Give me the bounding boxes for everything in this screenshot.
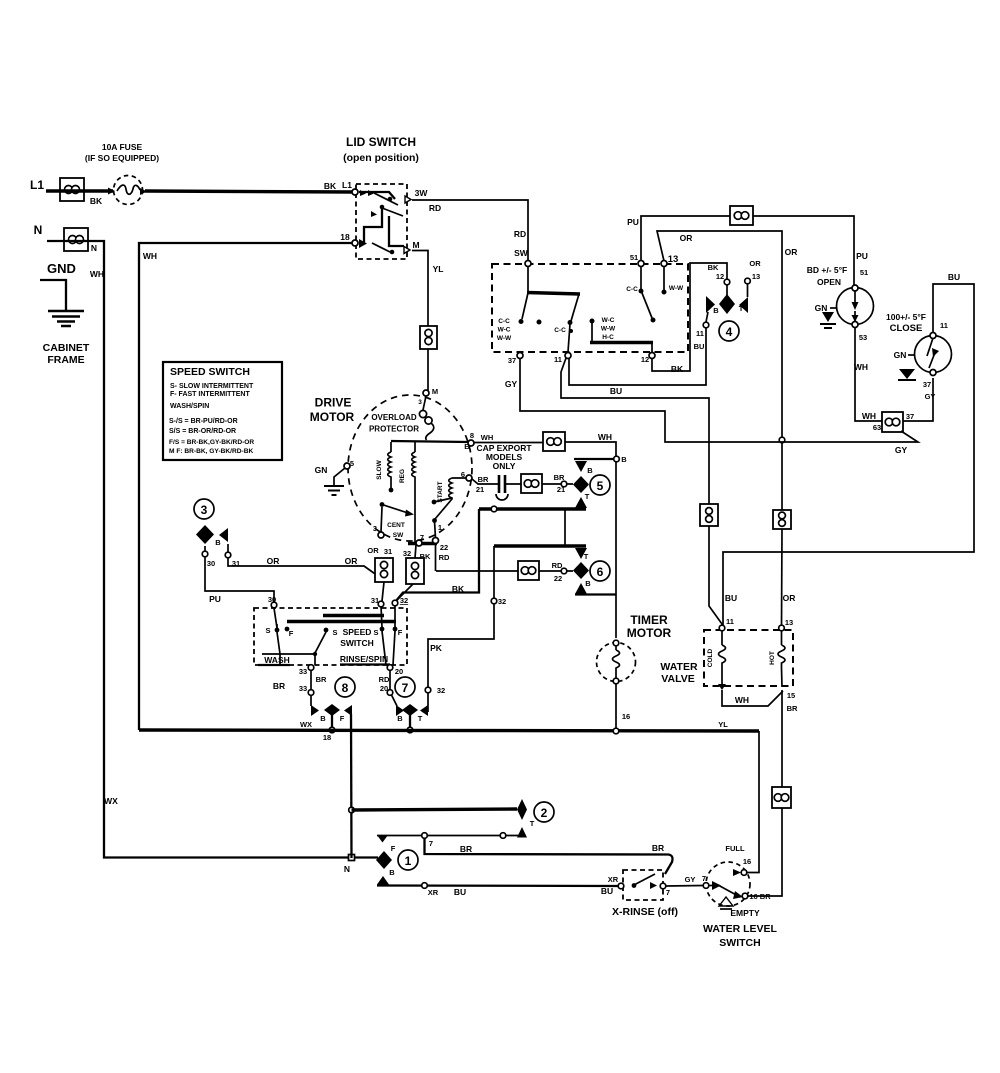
svg-text:YL: YL (433, 264, 444, 274)
connector BR 21 (521, 474, 542, 493)
svg-text:SLOW: SLOW (376, 459, 383, 479)
svg-text:OR: OR (267, 556, 280, 566)
svg-text:BU: BU (725, 593, 737, 603)
svg-text:H-C: H-C (602, 334, 614, 341)
svg-text:BU: BU (454, 887, 466, 897)
svg-text:6: 6 (597, 565, 604, 579)
svg-text:BR: BR (652, 843, 664, 853)
wire WH left rectangle (139, 232, 354, 730)
connector plug 2 (517, 799, 554, 838)
connector YL (420, 326, 437, 349)
motor terminal 5 ground (315, 459, 354, 495)
svg-text:OR: OR (783, 593, 796, 603)
svg-text:W-W: W-W (601, 326, 616, 333)
svg-text:1: 1 (405, 854, 412, 868)
wire OR to valve (781, 529, 784, 627)
wire BU to valve 11 (709, 526, 737, 628)
svg-text:51: 51 (860, 268, 868, 277)
svg-text:BR: BR (787, 704, 798, 713)
wire OR outer (657, 231, 797, 603)
svg-text:37: 37 (923, 380, 931, 389)
water level switch (703, 844, 777, 949)
fuse F1 10A (85, 142, 159, 205)
connector N (64, 228, 97, 253)
svg-text:RD: RD (439, 553, 450, 562)
svg-text:RD: RD (514, 229, 526, 239)
svg-text:SWITCH: SWITCH (719, 937, 760, 949)
svg-text:B: B (397, 714, 403, 723)
wire PU 30 (205, 557, 276, 604)
svg-text:SW: SW (514, 248, 529, 258)
svg-text:RD: RD (429, 203, 441, 213)
motor terminal 7 (408, 533, 437, 546)
svg-text:7: 7 (420, 533, 424, 542)
motor internal bus (391, 441, 468, 442)
svg-text:22: 22 (440, 543, 448, 552)
svg-text:L1: L1 (30, 178, 44, 192)
svg-text:B: B (215, 538, 221, 547)
svg-text:C-C: C-C (498, 318, 510, 325)
svg-text:7: 7 (402, 681, 409, 695)
wire T 2 line (352, 809, 518, 810)
svg-text:COLD: COLD (707, 648, 714, 667)
svg-text:S: S (373, 628, 378, 637)
speed switch (254, 600, 407, 676)
svg-text:32: 32 (498, 597, 506, 606)
svg-text:N: N (91, 243, 97, 253)
svg-text:22: 22 (554, 574, 562, 583)
wire BR 33 (273, 670, 327, 706)
svg-text:8: 8 (342, 681, 349, 695)
svg-text:18: 18 (340, 232, 350, 242)
wire B bar 5 (396, 506, 586, 601)
wire 32 PK (425, 546, 506, 712)
svg-text:5: 5 (350, 459, 354, 468)
svg-text:F: F (289, 629, 294, 638)
wire BR 16 (748, 808, 782, 896)
wire WH neutral (47, 241, 378, 874)
svg-text:EMPTY: EMPTY (730, 908, 760, 918)
svg-text:63: 63 (873, 423, 881, 432)
svg-text:(open position): (open position) (343, 152, 419, 164)
svg-text:T: T (584, 552, 589, 561)
svg-text:WH: WH (598, 432, 612, 442)
wire YL to motor (427, 349, 429, 391)
legend speed switch (163, 362, 282, 460)
svg-text:B: B (621, 455, 627, 464)
svg-text:F- FAST INTERMITTENT: F- FAST INTERMITTENT (170, 391, 250, 398)
svg-text:BR: BR (460, 844, 472, 854)
svg-text:S: S (265, 626, 270, 635)
svg-text:GY: GY (925, 392, 936, 401)
thermostat 100 close (886, 312, 952, 380)
svg-text:WH: WH (481, 433, 494, 442)
svg-text:20: 20 (395, 667, 403, 676)
svg-text:PU: PU (856, 251, 868, 261)
svg-text:31: 31 (384, 547, 392, 556)
svg-text:SPEED SWITCH: SPEED SWITCH (170, 366, 250, 378)
svg-text:13: 13 (752, 272, 760, 281)
svg-text:T: T (585, 492, 590, 501)
motor terminal 3 (373, 524, 384, 538)
svg-text:MOTOR: MOTOR (627, 626, 672, 640)
svg-text:37: 37 (906, 412, 914, 421)
wire RD 22 (436, 561, 573, 583)
winding start (432, 478, 466, 519)
wire WH 53 (854, 327, 882, 432)
svg-text:BK: BK (708, 263, 719, 272)
svg-text:3: 3 (201, 503, 208, 517)
svg-text:DRIVE: DRIVE (315, 396, 352, 410)
svg-text:BR: BR (478, 475, 489, 484)
drive motor (310, 395, 472, 541)
svg-text:13: 13 (668, 254, 679, 265)
svg-text:S- SLOW INTERMITTENT: S- SLOW INTERMITTENT (170, 383, 254, 390)
connector plug 6 (494, 546, 616, 595)
svg-text:W-C: W-C (498, 327, 511, 334)
svg-text:3: 3 (418, 399, 422, 406)
svg-text:GND: GND (47, 261, 76, 276)
svg-text:13: 13 (785, 618, 793, 627)
winding reg (399, 442, 415, 542)
svg-text:N: N (344, 864, 350, 874)
svg-text:32: 32 (403, 549, 411, 558)
svg-text:53: 53 (859, 333, 867, 342)
svg-text:15: 15 (787, 691, 795, 700)
svg-text:11: 11 (726, 617, 734, 626)
svg-text:GN: GN (815, 303, 828, 313)
wire 18 drop (349, 714, 355, 858)
wire WH cap export run (474, 432, 627, 638)
wire GY long (505, 358, 918, 455)
connector OR 8 (375, 558, 393, 582)
connector plug 4 (706, 259, 761, 341)
svg-text:F: F (398, 628, 403, 637)
svg-text:B: B (587, 466, 593, 475)
svg-text:MOTOR: MOTOR (310, 410, 355, 424)
svg-text:(IF SO EQUIPPED): (IF SO EQUIPPED) (85, 153, 159, 163)
svg-text:6: 6 (461, 470, 465, 479)
wire YL (412, 251, 443, 327)
wire 16 full (747, 731, 759, 873)
svg-text:CENT: CENT (387, 522, 405, 529)
wire GY xrinse (666, 874, 706, 886)
svg-text:YL: YL (718, 720, 728, 729)
svg-text:OR: OR (749, 259, 761, 268)
svg-text:WATER: WATER (660, 661, 698, 673)
svg-text:XR: XR (428, 888, 439, 897)
svg-text:PK: PK (430, 643, 443, 653)
wire BR bottom (425, 838, 673, 874)
wire RD (412, 200, 529, 262)
thermostat BD open (807, 265, 874, 342)
wire BK 12 (652, 263, 727, 374)
svg-text:M: M (412, 240, 419, 250)
svg-text:12: 12 (641, 355, 649, 364)
svg-text:BU: BU (948, 272, 960, 282)
ground cabinet frame (40, 261, 90, 366)
svg-text:OR: OR (680, 233, 693, 243)
svg-text:N: N (34, 223, 43, 237)
svg-text:WATER LEVEL: WATER LEVEL (703, 923, 777, 935)
water temperature switch (492, 253, 688, 365)
svg-text:WASH/SPIN: WASH/SPIN (170, 403, 209, 410)
svg-text:XR: XR (608, 875, 619, 884)
svg-text:OVERLOAD: OVERLOAD (371, 413, 417, 422)
connector RD 22 (518, 561, 539, 580)
svg-text:S-/S = BR-PU/RD-OR: S-/S = BR-PU/RD-OR (169, 418, 238, 425)
svg-text:WASH: WASH (264, 655, 290, 665)
svg-text:33: 33 (299, 667, 307, 676)
svg-text:PU: PU (209, 594, 221, 604)
connector plug 8 (300, 677, 355, 742)
svg-text:100+/- 5°F: 100+/- 5°F (886, 312, 926, 322)
svg-text:BD +/- 5°F: BD +/- 5°F (807, 265, 847, 275)
connector BR bottom (772, 787, 791, 808)
svg-text:21: 21 (476, 485, 484, 494)
svg-text:WX: WX (104, 796, 118, 806)
svg-text:T: T (739, 304, 744, 313)
svg-text:BK: BK (90, 196, 103, 206)
svg-text:CLOSE: CLOSE (890, 323, 923, 334)
svg-text:10A FUSE: 10A FUSE (102, 142, 143, 152)
water valve (660, 617, 798, 713)
wire OR 31 drop (371, 582, 384, 605)
svg-text:WH: WH (735, 695, 749, 705)
svg-text:7: 7 (666, 888, 670, 897)
svg-text:LID SWITCH: LID SWITCH (346, 135, 416, 149)
svg-text:W-W: W-W (669, 285, 684, 292)
svg-text:PROTECTOR: PROTECTOR (369, 425, 419, 434)
svg-text:F: F (340, 714, 345, 723)
connector plug 7 (395, 677, 428, 733)
svg-text:SPEED: SPEED (343, 627, 372, 637)
svg-text:GN: GN (894, 350, 907, 360)
svg-text:GN: GN (315, 465, 328, 475)
svg-text:SWITCH: SWITCH (340, 638, 374, 648)
svg-text:GY: GY (895, 445, 908, 455)
svg-text:BK: BK (452, 584, 465, 594)
winding slow (376, 442, 393, 492)
svg-text:ONLY: ONLY (493, 461, 516, 471)
svg-text:33: 33 (299, 684, 307, 693)
capacitor cap export only (476, 443, 532, 500)
svg-text:11: 11 (696, 329, 704, 338)
svg-text:TIMER: TIMER (630, 613, 668, 627)
svg-text:B: B (713, 306, 719, 315)
svg-text:12: 12 (716, 272, 724, 281)
wire BK 7 motor (367, 545, 431, 561)
svg-text:3: 3 (373, 524, 377, 533)
svg-text:30: 30 (207, 559, 215, 568)
svg-text:WX: WX (300, 720, 312, 729)
svg-text:B: B (585, 579, 591, 588)
svg-text:11: 11 (554, 355, 562, 364)
connector OR (773, 510, 791, 529)
svg-text:1: 1 (438, 523, 442, 532)
svg-text:W-W: W-W (497, 335, 512, 342)
wire BK L1 (46, 180, 354, 206)
motor junction B WH (464, 431, 493, 451)
svg-text:WH: WH (90, 269, 104, 279)
connector PU (730, 206, 753, 225)
terminal N (34, 223, 43, 237)
svg-text:WH: WH (143, 251, 157, 261)
wire BR 21 (461, 470, 573, 494)
svg-text:W-C: W-C (602, 317, 615, 324)
overload protector (369, 387, 438, 440)
svg-text:BK: BK (671, 364, 684, 374)
svg-text:B: B (464, 442, 470, 451)
svg-text:F: F (391, 844, 396, 853)
svg-text:B: B (389, 868, 395, 877)
svg-text:BU: BU (601, 886, 613, 896)
connector BK 9 (406, 558, 424, 584)
connector plug 5 (573, 459, 614, 508)
svg-text:M F: BR-BK, GY-BK/RD-BK: M F: BR-BK, GY-BK/RD-BK (169, 448, 253, 455)
wire main rail (139, 720, 759, 731)
wire BU main (561, 358, 709, 504)
svg-text:VALVE: VALVE (661, 673, 694, 685)
lid switch S1 (343, 135, 428, 259)
svg-text:M: M (432, 387, 438, 396)
x-rinse switch (608, 870, 678, 918)
svg-text:16: 16 (743, 857, 751, 866)
centrifugal switch (380, 502, 414, 539)
wire OR 31 (228, 556, 378, 576)
wire GY to thermostat 100 (903, 378, 935, 421)
svg-text:3W: 3W (415, 188, 429, 198)
svg-text:4: 4 (726, 325, 733, 339)
svg-text:2: 2 (541, 806, 548, 820)
svg-text:32: 32 (400, 596, 408, 605)
svg-text:L1: L1 (342, 180, 352, 190)
svg-text:OR: OR (345, 556, 358, 566)
svg-text:5: 5 (597, 479, 604, 493)
connector plug 1 (376, 835, 418, 885)
svg-text:HOT: HOT (769, 651, 776, 665)
terminal L1 (30, 178, 44, 192)
svg-text:11: 11 (940, 321, 948, 330)
svg-text:CABINET: CABINET (43, 342, 90, 354)
svg-text:FULL: FULL (725, 844, 745, 853)
svg-text:SW: SW (393, 532, 404, 539)
svg-text:B: B (320, 714, 326, 723)
svg-text:WH: WH (854, 362, 868, 372)
svg-text:OR: OR (785, 247, 798, 257)
svg-text:S/S = BR-OR/RD-OR: S/S = BR-OR/RD-OR (169, 428, 236, 435)
connector WH (543, 432, 565, 451)
svg-text:RINSE/SPIN: RINSE/SPIN (340, 654, 388, 664)
svg-text:BR: BR (273, 681, 285, 691)
svg-text:16: 16 (622, 712, 630, 721)
svg-text:7: 7 (429, 839, 433, 848)
svg-text:X-RINSE (off): X-RINSE (off) (612, 906, 678, 918)
svg-text:FRAME: FRAME (47, 354, 84, 366)
svg-text:S: S (332, 628, 337, 637)
connector 63 37 (882, 412, 914, 432)
svg-text:PU: PU (627, 217, 639, 227)
svg-text:GY: GY (505, 379, 518, 389)
svg-text:BU: BU (694, 342, 705, 351)
svg-text:BK: BK (324, 181, 337, 191)
svg-text:37: 37 (508, 356, 516, 365)
wire 7 line (377, 833, 519, 848)
connector plug 3 (194, 499, 240, 568)
svg-text:T: T (418, 714, 423, 723)
timer motor (597, 613, 672, 734)
svg-text:F/S = BR-BK,GY-BK/RD-OR: F/S = BR-BK,GY-BK/RD-OR (169, 439, 254, 446)
svg-text:T: T (530, 819, 535, 828)
motor terminal 1 (432, 518, 450, 571)
wire BU thermostat (723, 272, 974, 628)
svg-text:18: 18 (323, 733, 331, 742)
svg-text:32: 32 (437, 686, 445, 695)
svg-text:WH: WH (862, 411, 876, 421)
svg-text:GY: GY (685, 875, 696, 884)
svg-text:OPEN: OPEN (817, 277, 841, 287)
svg-text:16 BR: 16 BR (749, 892, 771, 901)
svg-text:BR: BR (316, 675, 327, 684)
wire BU bottom (377, 883, 618, 897)
wire BK 32 drop (397, 584, 413, 605)
svg-text:C-C: C-C (554, 327, 566, 334)
wire RD 20 (379, 670, 397, 706)
wire BR 15 (781, 690, 783, 787)
svg-text:REG: REG (399, 469, 406, 483)
svg-text:8: 8 (470, 431, 474, 440)
connector L1 (60, 178, 84, 201)
wire 11 BU to plug 4 (569, 312, 709, 385)
svg-text:OR: OR (367, 546, 379, 555)
svg-text:51: 51 (630, 253, 638, 262)
svg-text:C-C: C-C (626, 286, 638, 293)
wire PU top (627, 216, 868, 288)
connector BU (700, 504, 718, 526)
svg-text:7: 7 (702, 874, 706, 883)
svg-text:RD: RD (379, 675, 390, 684)
svg-text:BU: BU (610, 386, 622, 396)
